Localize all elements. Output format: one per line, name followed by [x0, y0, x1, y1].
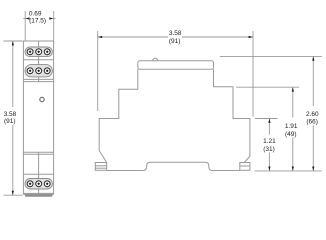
- svg-text:(17.5): (17.5): [29, 17, 46, 24]
- svg-text:(66): (66): [306, 119, 318, 126]
- svg-text:3.58: 3.58: [169, 30, 182, 37]
- svg-text:3.58: 3.58: [4, 111, 17, 118]
- svg-text:(91): (91): [4, 118, 16, 125]
- svg-text:1.91: 1.91: [285, 123, 298, 130]
- svg-text:1.21: 1.21: [263, 138, 276, 145]
- svg-text:2.60: 2.60: [306, 111, 319, 118]
- svg-text:(49): (49): [285, 131, 297, 138]
- svg-text:(31): (31): [263, 146, 275, 153]
- svg-text:(91): (91): [169, 38, 181, 45]
